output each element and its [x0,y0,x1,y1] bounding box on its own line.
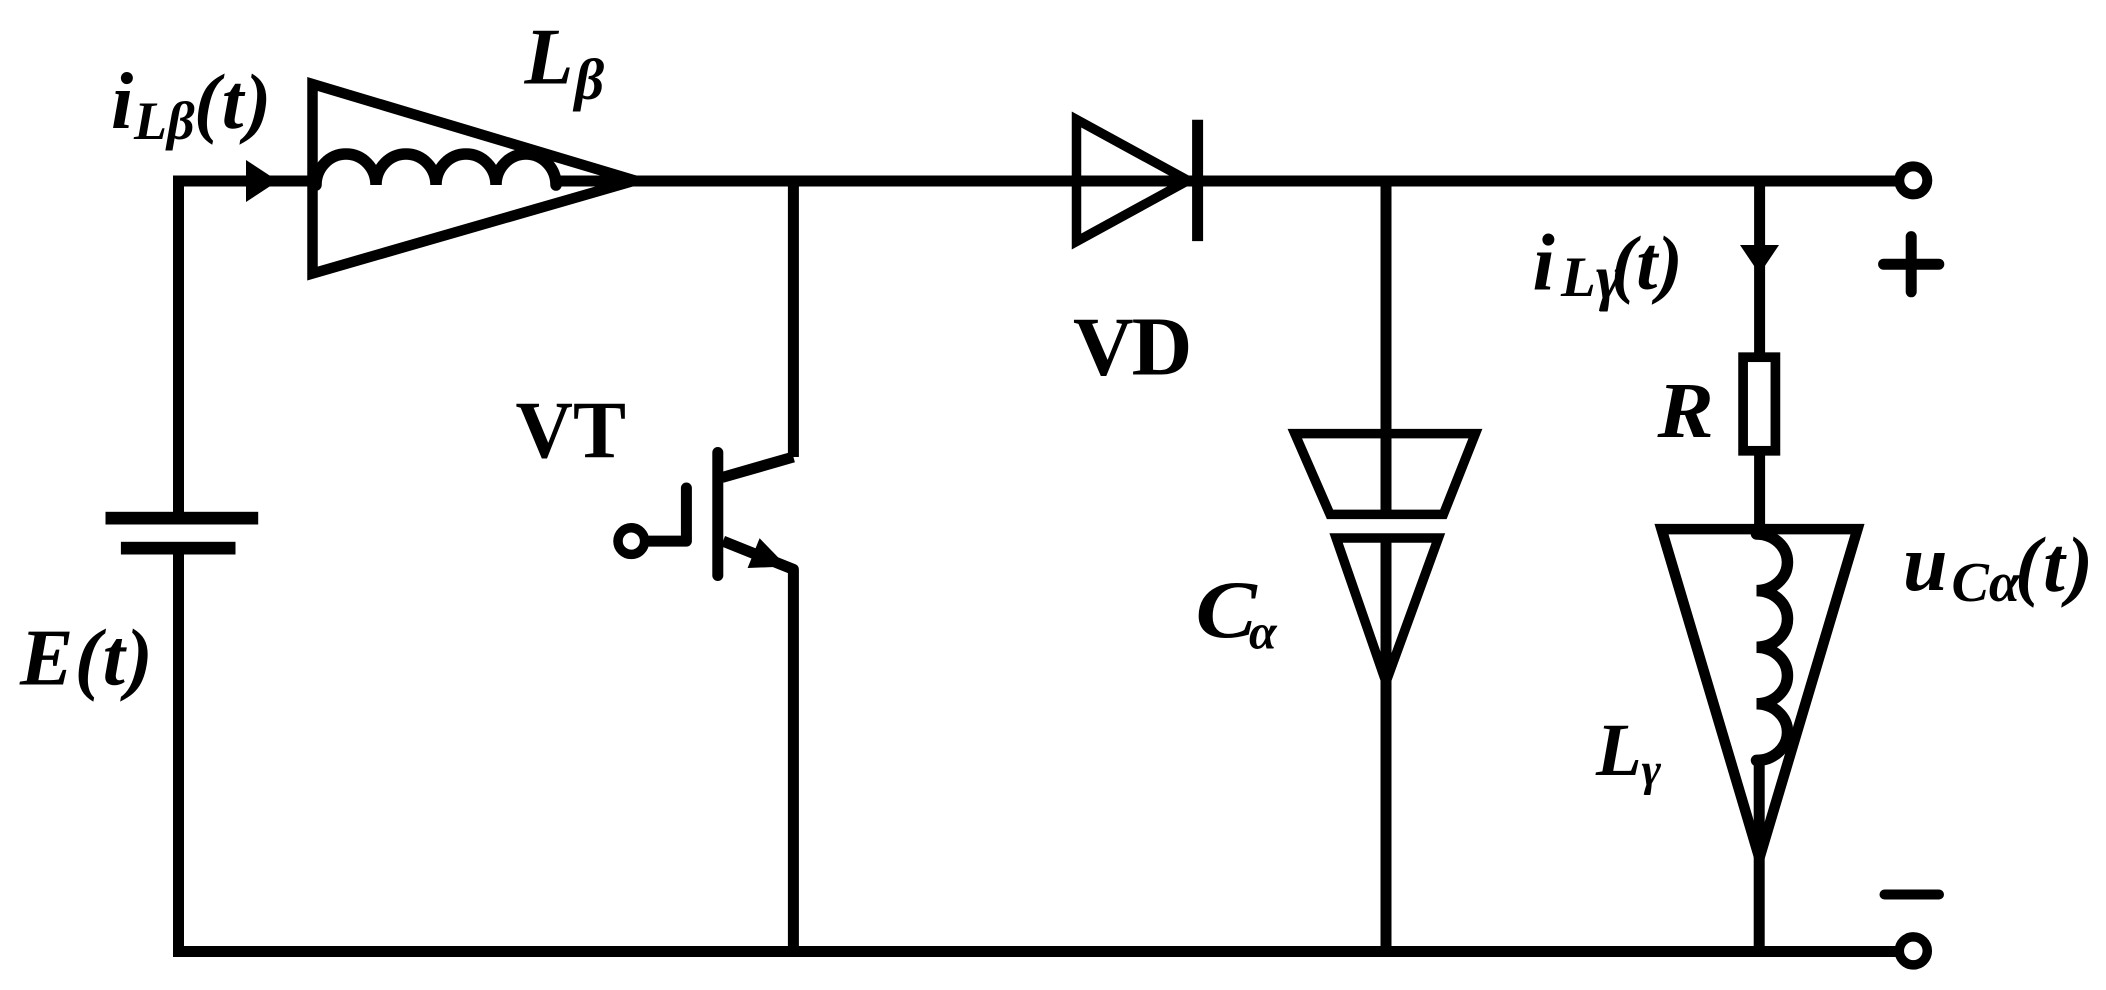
transistor VT gate circle [618,528,645,555]
inductor L1 coil (Lβ) [316,154,556,185]
battery E top plate [106,512,259,525]
svg-text:L: L [1595,709,1642,792]
svg-text:Cα: Cα [1952,552,2021,614]
wire: output branch from top rail to resistor [1754,181,1765,360]
polarity minus sign [1885,890,1940,900]
wire: left vertical below battery + bottom rail [179,554,1900,952]
terminal: bottom-right output node [1899,937,1927,965]
polarity plus sign [1884,237,1939,292]
label Cα [1196,564,1279,660]
wire: inductor Lγ tail to bottom rail [1754,760,1765,951]
svg-text:(t): (t) [194,58,273,145]
svg-text:VD: VD [1073,301,1190,394]
label Lγ [1595,709,1662,796]
transistor VT collector angled lead [722,457,793,478]
wire: top rail from inductor apex side to top-right terminal [556,176,1899,187]
svg-text:(t): (t) [1611,222,1683,306]
svg-text:i: i [1533,220,1555,308]
svg-text:Lβ: Lβ [133,91,195,151]
svg-text:L: L [1560,246,1596,309]
node arrow: iLγ current arrow [1740,245,1779,274]
transistor VT emitter arrow [748,538,787,568]
svg-text:R: R [1656,366,1713,455]
svg-text:u: u [1903,520,1948,608]
node arrow: current direction arrow on top-left wire [246,160,278,202]
wire: capacitor branch upper segment [1381,181,1392,514]
svg-text:VT: VT [516,385,627,476]
svg-text:β: β [573,47,605,112]
label Lβ [524,14,605,112]
transistor VT emitter lead + wire down to bottom rail [723,541,793,951]
svg-text:E(t): E(t) [19,615,154,703]
inductor L2 coil (Lγ) [1757,534,1788,760]
svg-text:i: i [111,58,133,146]
diode VD triangle [1077,120,1189,242]
inductor L2 triangle outline (Lγ) [1662,529,1858,858]
svg-text:L: L [524,14,574,102]
diode VD cathode bar [1192,120,1203,241]
wire: VT collector drop from top rail [788,181,799,457]
transistor VT gate bar and lead [649,488,686,541]
resistor R body [1743,357,1775,451]
label uCα(t) [1903,520,2095,614]
svg-text:γ: γ [1642,744,1662,796]
inductor L1 triangle outline [313,84,636,274]
transistor VT main bar [712,453,723,576]
capacitor C1 bottom plate (triangle) [1336,538,1438,682]
svg-text:α: α [1249,604,1278,660]
label iLγ(t) [1533,220,1683,313]
wire: resistor to inductor Lγ [1754,451,1765,534]
wire: left vertical + top rail from source corner to inductor [179,181,317,512]
battery E bottom plate [121,542,236,555]
capacitor C1 top plate (trapezoid) [1295,434,1476,515]
wire: capacitor branch lower segment to bottom rail [1381,538,1392,952]
svg-text:(t): (t) [2015,521,2095,608]
terminal: top-right output node [1899,166,1927,194]
label iLβ(t) [111,58,273,151]
